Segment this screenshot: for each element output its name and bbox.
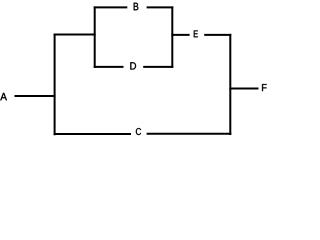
branch D wire right segment (143, 66, 173, 68)
wire E left segment (171, 34, 189, 36)
parallel box right vertical wire (171, 6, 173, 68)
branch C wire right segment (147, 133, 232, 135)
branch B wire left segment (94, 6, 128, 8)
left rail wire (54, 34, 56, 136)
branch B label (134, 3, 139, 10)
branch C label (136, 128, 141, 135)
wire E right segment (204, 34, 231, 36)
node E label (194, 30, 198, 37)
branch D label (130, 62, 136, 69)
parallel box left vertical wire (94, 6, 96, 68)
wire left rail to parallel box (54, 34, 96, 36)
branch D wire left segment (94, 66, 124, 68)
node A label (0, 93, 7, 100)
right rail wire (229, 34, 231, 135)
terminal A lead wire (15, 95, 56, 97)
branch C wire left segment (54, 133, 131, 135)
node F label (262, 84, 267, 91)
terminal F lead wire (229, 88, 258, 90)
branch B wire right segment (147, 6, 174, 8)
